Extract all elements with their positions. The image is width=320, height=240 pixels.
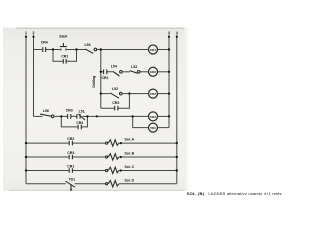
coil TD1 <box>149 123 158 132</box>
solenoid rung C wire <box>26 170 177 172</box>
terminal dots at rail tops <box>25 36 27 38</box>
limit switch L54 <box>113 72 119 77</box>
limit switch L52 rung2 <box>130 71 138 74</box>
contact CR2 rung A <box>69 141 72 146</box>
svg-text:Start: Start <box>59 34 68 38</box>
svg-text:CR3: CR3 <box>112 101 119 105</box>
node rungB <box>25 156 27 158</box>
rail 2 (left inner) <box>33 35 35 117</box>
svg-text:CR1: CR1 <box>101 76 108 80</box>
coil CR4 <box>149 112 158 121</box>
rail 3 (right inner) <box>168 35 170 128</box>
svg-text:TD1: TD1 <box>150 126 156 130</box>
contact CR3 (branch rung3) <box>115 106 118 111</box>
svg-text:L56: L56 <box>43 109 49 113</box>
svg-text:L52: L52 <box>112 87 118 91</box>
svg-text:CR2: CR2 <box>67 137 74 141</box>
CR4 parallel branch wires <box>61 116 87 127</box>
solenoid A <box>106 142 108 144</box>
node rung2 <box>100 71 102 73</box>
CR1 parallel branch wires <box>53 50 77 62</box>
contact CR3 rung4 <box>68 114 71 119</box>
scan background area <box>3 28 185 191</box>
svg-text:L52: L52 <box>131 65 137 69</box>
svg-text:CR1: CR1 <box>67 164 74 168</box>
pushbutton Start <box>60 43 67 47</box>
svg-text:Sol. D: Sol. D <box>125 178 135 182</box>
contact CR3 rung B <box>69 155 72 160</box>
limit switch L53 <box>85 49 93 53</box>
coil CR1 <box>149 45 158 54</box>
svg-text:L54: L54 <box>111 65 117 69</box>
svg-text:TD1: TD1 <box>68 177 75 181</box>
contact CR1 (branch under start) <box>63 59 66 64</box>
svg-text:CR4: CR4 <box>76 121 83 125</box>
contact CR1 rung C <box>69 168 72 173</box>
svg-text:CR4: CR4 <box>41 40 48 44</box>
solenoid rung B wire <box>26 156 177 158</box>
node rung4 <box>60 115 62 117</box>
solenoid rung A wire <box>26 142 177 144</box>
svg-text:CR2: CR2 <box>150 70 156 74</box>
svg-text:CR1: CR1 <box>150 48 156 52</box>
solenoid B <box>106 156 108 158</box>
svg-text:Sol. C: Sol. C <box>125 165 135 169</box>
contact TD1 rung D (timed NC) <box>66 181 75 187</box>
svg-text:Drilling: Drilling <box>92 76 96 88</box>
svg-text:L53: L53 <box>84 43 90 47</box>
rung 4 wire <box>34 115 43 117</box>
rung 2 wire <box>101 71 113 73</box>
contact L51 <box>77 114 85 120</box>
contact bars, coils, switches <box>40 43 158 190</box>
limit switch L52 rung3 <box>110 93 119 98</box>
contact CR1 rung2 <box>104 69 107 74</box>
limit switch L56 <box>40 114 51 116</box>
node rungC <box>25 169 27 171</box>
scan bottom edge line <box>10 190 186 191</box>
TD1 coil branch wires <box>133 116 169 127</box>
svg-text:2: 2 <box>33 31 35 35</box>
solenoid C <box>106 169 108 171</box>
contact CR4 rung1 <box>43 47 46 52</box>
rung 1 wire <box>34 49 43 51</box>
scan top edge line <box>16 28 189 29</box>
coil CR2 <box>149 67 158 76</box>
svg-text:CR3: CR3 <box>150 92 156 96</box>
node vertical (drilling bus) <box>100 50 102 109</box>
node rung3 <box>100 92 102 94</box>
svg-text:4: 4 <box>176 31 178 35</box>
svg-text:CR4: CR4 <box>150 115 156 119</box>
svg-text:CR3: CR3 <box>67 151 74 155</box>
TD1 arrowhead <box>70 189 73 191</box>
svg-text:CR3: CR3 <box>66 109 73 113</box>
node rungA <box>25 142 27 144</box>
rung 3 wire <box>101 93 110 95</box>
svg-text:SOL. (B) LADDER alternativo u: SOL. (B) LADDER alternativo usando 4+1 r… <box>187 191 283 196</box>
svg-text:Sol. A: Sol. A <box>125 138 135 142</box>
scan right edge shade <box>185 28 191 191</box>
svg-text:CR1: CR1 <box>61 54 68 58</box>
solenoid rung D wire <box>26 183 177 185</box>
contact CR4 (branch rung4) <box>78 125 81 130</box>
svg-text:1: 1 <box>25 31 27 35</box>
coil CR3 <box>149 89 158 98</box>
svg-text:3: 3 <box>168 31 170 35</box>
solenoid D <box>106 183 108 185</box>
node rung1 <box>52 48 54 50</box>
svg-text:L51: L51 <box>79 109 85 113</box>
rail 4 (right outer) <box>176 35 178 184</box>
svg-text:Sol. B: Sol. B <box>125 152 135 156</box>
CR3 parallel branch wires <box>101 94 130 109</box>
rail 1 (left outer) <box>25 35 27 184</box>
